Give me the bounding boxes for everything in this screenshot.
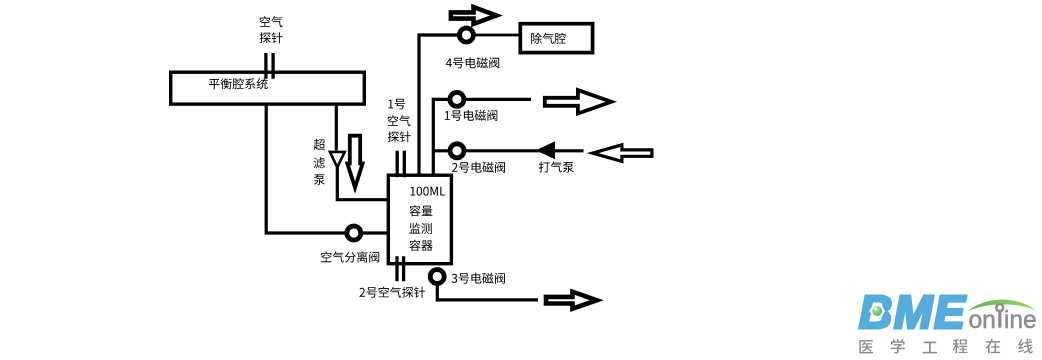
- label 1号电磁阀: [445, 110, 498, 121]
- label 空气 (probe1 line2): [388, 115, 411, 126]
- probe 2 tick marks on 100ML box bottom: [397, 256, 404, 281]
- label 100ML: [410, 187, 445, 196]
- wire stub from riser B to valve 2: [433, 149, 448, 152]
- air probe tick marks on balance chamber box top: [266, 53, 273, 79]
- wire from air-separation valve to 100ML container box: [362, 231, 389, 234]
- valve circle 空气分离阀 (air separation valve): [347, 226, 361, 240]
- label 4号电磁阀: [446, 57, 499, 68]
- valve circle 2号电磁阀: [450, 144, 464, 158]
- label 超 (ultrafilter pump char1): [314, 139, 325, 150]
- wire from valve 3 down then right to outlet arrow: [437, 284, 538, 300]
- label 空气分离阀: [321, 251, 379, 262]
- hollow left arrow at air-pump inlet: [593, 145, 652, 162]
- logo green arc over online: [968, 300, 1035, 312]
- solid left arrowhead on air-pump wire: [536, 141, 555, 159]
- wire right of valve 1: [466, 98, 531, 101]
- label 容量: [409, 205, 432, 216]
- label 探针 (air probe line 2): [260, 32, 283, 43]
- label 除气腔: [531, 33, 566, 44]
- valve circle 1号电磁阀: [450, 92, 464, 106]
- label 1号 (probe1 line1): [388, 99, 405, 110]
- wire right of valve 2 toward air pump: [466, 149, 584, 152]
- label 打气泵 (air pump): [539, 161, 574, 172]
- hollow right arrow at valve-3 outlet: [546, 292, 597, 309]
- logo slogan 医学工程在线: [859, 339, 1032, 354]
- logo hex nut on letter B: [869, 305, 885, 318]
- label 3号电磁阀: [452, 273, 505, 284]
- label 滤 (ultrafilter pump char2): [314, 157, 325, 168]
- wire from balance-chamber box bottom to ultrafilter pump funnel: [335, 104, 338, 150]
- valve circle 4号电磁阀: [459, 28, 473, 42]
- box 100ML capacity monitoring container: [388, 175, 451, 264]
- logo green ball inside nut: [872, 306, 882, 316]
- svg-text:on: on: [969, 307, 996, 334]
- ultrafilter pump funnel triangle: [330, 152, 345, 167]
- label 平衡腔系统: [209, 78, 268, 89]
- svg-text:ine: ine: [1004, 307, 1037, 334]
- probe 1 tick marks on 100ML box top: [397, 151, 404, 178]
- logo wrench (letter l): [998, 310, 1001, 328]
- hollow right arrow at valve-1 outlet: [545, 90, 612, 113]
- wire from balance-chamber box bottom down and right to air-separation valve: [266, 104, 345, 233]
- label 2号电磁阀: [452, 162, 505, 173]
- wire riser A up from 100ML box top to valve-4 line: [419, 35, 458, 176]
- box 平衡腔系统 (balance chamber system): [171, 72, 365, 104]
- wire riser B up from 100ML box top to valve-1 line: [433, 99, 448, 176]
- valve circle 3号电磁阀: [430, 270, 444, 284]
- label 容器: [409, 240, 432, 251]
- label 空气 (air probe line 1): [260, 16, 283, 27]
- label 泵 (ultrafilter pump char3): [314, 174, 325, 185]
- label 2号空气探针: [360, 287, 426, 298]
- hollow right arrow above valve 4 (outlet to degasser): [451, 7, 497, 24]
- label 探针 (probe1 line3): [388, 131, 411, 142]
- box 除气腔 (degassing chamber): [520, 24, 592, 53]
- hollow down arrow beside ultrafilter pump: [347, 136, 362, 188]
- label 监测: [409, 223, 432, 234]
- wire from funnel apex down then right into 100ML container box: [337, 166, 389, 200]
- wire from valve 4 to degassing chamber box: [476, 34, 521, 37]
